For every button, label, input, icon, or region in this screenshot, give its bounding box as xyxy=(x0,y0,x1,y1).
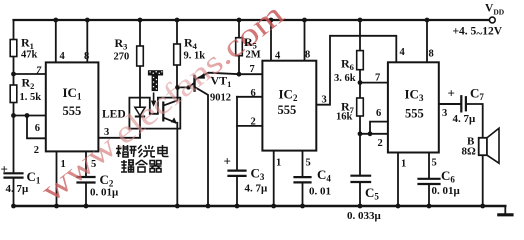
svg-text:16k: 16k xyxy=(336,112,353,123)
svg-text:0. 033μ: 0. 033μ xyxy=(347,210,382,222)
svg-text:4. 7μ: 4. 7μ xyxy=(453,113,477,125)
svg-text:1: 1 xyxy=(61,159,66,170)
svg-text:3: 3 xyxy=(442,108,447,119)
svg-text:6: 6 xyxy=(35,123,40,134)
svg-text:6: 6 xyxy=(376,108,381,119)
svg-text:3: 3 xyxy=(322,95,327,106)
svg-text:2: 2 xyxy=(34,145,39,156)
svg-text:+: + xyxy=(448,86,455,101)
svg-text:0. 01μ: 0. 01μ xyxy=(432,185,461,197)
svg-text:5: 5 xyxy=(432,158,437,169)
svg-text:3. 6k: 3. 6k xyxy=(334,73,356,84)
svg-text:8Ω: 8Ω xyxy=(462,146,477,158)
svg-text:270: 270 xyxy=(114,52,130,63)
svg-text:2: 2 xyxy=(378,138,383,149)
svg-text:9012: 9012 xyxy=(210,93,231,104)
svg-text:2M: 2M xyxy=(246,50,261,61)
svg-text:7: 7 xyxy=(250,64,255,75)
svg-text:5: 5 xyxy=(91,159,96,170)
svg-text:1. 5k: 1. 5k xyxy=(20,92,42,103)
svg-text:9. 1k: 9. 1k xyxy=(184,51,206,62)
svg-text:3: 3 xyxy=(104,127,109,138)
svg-text:47k: 47k xyxy=(21,50,38,61)
svg-text:7: 7 xyxy=(375,73,380,84)
svg-text:6: 6 xyxy=(251,88,256,99)
svg-text:2: 2 xyxy=(251,117,256,128)
svg-text:4. 7μ: 4. 7μ xyxy=(6,183,30,195)
svg-text:0. 01μ: 0. 01μ xyxy=(90,187,119,199)
svg-text:+: + xyxy=(1,162,8,177)
svg-text:4: 4 xyxy=(275,51,281,62)
svg-text:8: 8 xyxy=(84,51,89,62)
svg-text:LED: LED xyxy=(102,109,126,121)
svg-text:555: 555 xyxy=(405,107,424,121)
svg-text:4: 4 xyxy=(60,51,66,62)
svg-text:1: 1 xyxy=(276,158,281,169)
svg-text:5: 5 xyxy=(306,158,311,169)
svg-text:1: 1 xyxy=(401,159,406,170)
svg-text:7: 7 xyxy=(36,66,42,77)
svg-text:+: + xyxy=(224,154,231,169)
svg-text:555: 555 xyxy=(278,103,297,117)
svg-text:8: 8 xyxy=(305,50,310,61)
svg-text:555: 555 xyxy=(63,104,82,118)
svg-text:8: 8 xyxy=(429,49,434,60)
svg-text:4: 4 xyxy=(400,47,406,58)
svg-text:4. 7μ: 4. 7μ xyxy=(245,183,269,195)
svg-text:0. 01: 0. 01 xyxy=(309,186,331,198)
